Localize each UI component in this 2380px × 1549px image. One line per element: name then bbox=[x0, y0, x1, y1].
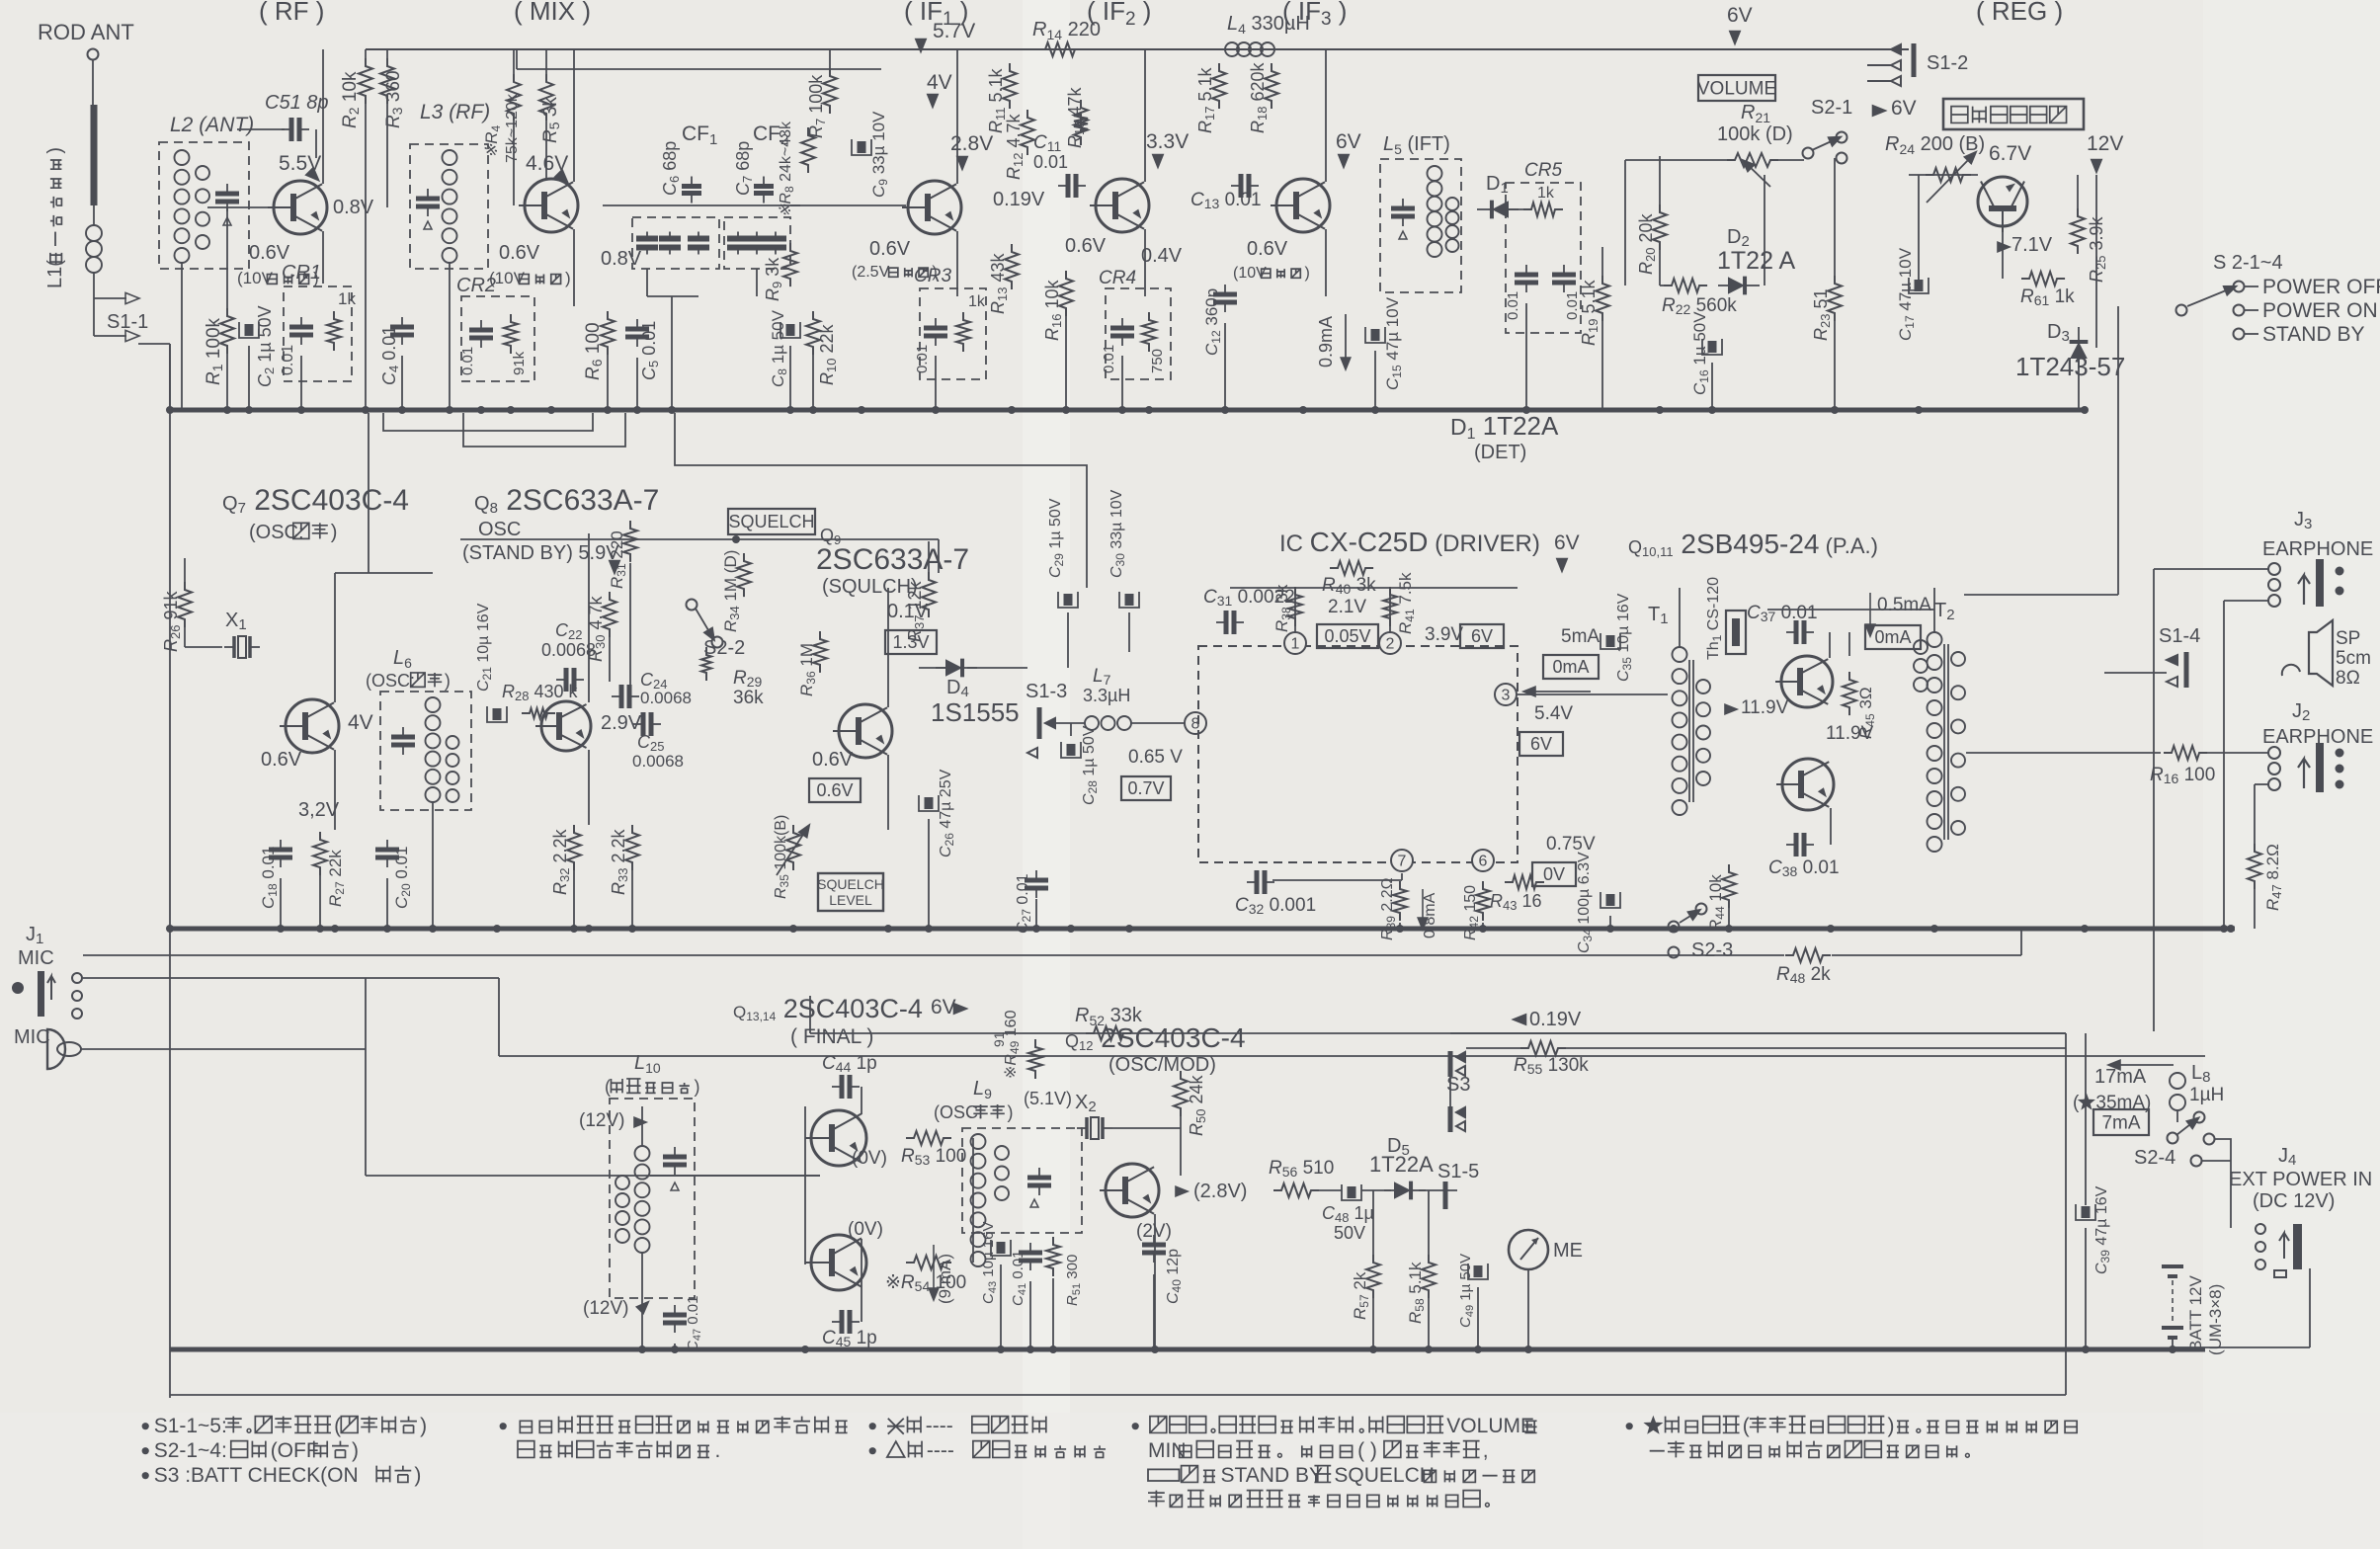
wire D2 out bbox=[1764, 175, 1765, 285]
marker 4.6V bbox=[555, 170, 572, 187]
wire C48 to D5 bbox=[1361, 1189, 1391, 1191]
legend star a bbox=[1626, 1415, 2078, 1437]
svg-text:6V: 6V bbox=[1471, 626, 1493, 646]
wire Q1 collector up bbox=[322, 49, 324, 184]
wire TX box bottom bbox=[170, 1394, 2066, 1396]
capacitor C11 bbox=[1058, 174, 1086, 198]
svg-text:36k: 36k bbox=[733, 688, 764, 708]
wire D3 down bbox=[2078, 358, 2080, 410]
svg-text:0mA: 0mA bbox=[1874, 627, 1911, 647]
filter CF2 element b bbox=[746, 232, 768, 255]
resistor R56 bbox=[1273, 1183, 1319, 1197]
svg-text:1µH: 1µH bbox=[2189, 1085, 2224, 1105]
wire R21 right bbox=[1778, 159, 1804, 161]
wire link 546 bbox=[460, 538, 939, 540]
pot arrow R21 bbox=[1747, 164, 1770, 187]
resistor R2 bbox=[359, 58, 372, 104]
junction bus bbox=[1299, 406, 1307, 414]
wire C41 down bbox=[1029, 1281, 1031, 1349]
wire R4 down bbox=[513, 122, 515, 205]
wire right riser c bbox=[2223, 601, 2225, 929]
wire Q2 emitter down bbox=[573, 229, 575, 306]
wire D2 link bbox=[1660, 285, 1668, 286]
junction mid bus bbox=[925, 925, 933, 933]
resistor R55 bbox=[1520, 1041, 1566, 1055]
svg-text:0.0068: 0.0068 bbox=[640, 689, 692, 707]
potentiometer R21 bbox=[1727, 153, 1778, 167]
IC pin 7 bbox=[1391, 850, 1413, 871]
svg-text:0.01: 0.01 bbox=[1101, 345, 1117, 373]
label 6V box b bbox=[1519, 732, 1563, 756]
junction mid bus bbox=[1606, 925, 1614, 933]
svg-text:R25 3.9k: R25 3.9k bbox=[2087, 216, 2108, 283]
wire C51 left bbox=[237, 128, 285, 130]
wire finals join bbox=[972, 1138, 974, 1263]
junction bus bbox=[223, 406, 231, 414]
capacitor C17 bbox=[1909, 278, 1929, 293]
svg-text:OSC: OSC bbox=[478, 519, 521, 540]
wire IF2 collector bbox=[1144, 49, 1146, 182]
capacitor C31 bbox=[1216, 611, 1244, 634]
svg-text:※R8 24k~43k: ※R8 24k~43k bbox=[778, 121, 796, 217]
resistor R51 bbox=[1046, 1237, 1060, 1276]
svg-text:4V: 4V bbox=[348, 711, 373, 734]
resistor R6 bbox=[601, 311, 615, 355]
wire CF link down bbox=[671, 296, 673, 410]
diode D3 bbox=[2070, 327, 2089, 368]
capacitor in L6 bbox=[391, 727, 415, 755]
diode D1 bbox=[1477, 201, 1518, 219]
marker 6V top bbox=[1730, 32, 1740, 44]
svg-text:(12V): (12V) bbox=[579, 1110, 624, 1131]
junction bottom bus bbox=[1369, 1345, 1377, 1353]
wire IF3 collector bbox=[1325, 49, 1327, 182]
wire R5 down bbox=[545, 122, 547, 179]
capacitor C28 bbox=[1061, 742, 1081, 758]
svg-text:SQUELCH: SQUELCH bbox=[817, 876, 884, 892]
svg-text:CR1: CR1 bbox=[282, 262, 321, 284]
switch S1-4 bbox=[2167, 652, 2186, 688]
capacitor C21 bbox=[487, 706, 507, 722]
wire mic drop bbox=[365, 978, 367, 1049]
wire riser a bbox=[498, 978, 500, 1056]
capacitor C16 bbox=[1702, 339, 1722, 355]
junction bottom bus bbox=[1474, 1345, 1482, 1353]
current arrow 0.8mA bbox=[1422, 889, 1424, 924]
wire L10 down bbox=[641, 1253, 643, 1349]
legend semiconductors a bbox=[500, 1417, 848, 1433]
wire R2 bottom bbox=[365, 104, 367, 410]
svg-text:S2-3: S2-3 bbox=[1691, 939, 1733, 961]
jack J3 bbox=[2268, 559, 2344, 607]
capacitor C43 bbox=[991, 1240, 1011, 1256]
svg-text:1k: 1k bbox=[1537, 185, 1555, 202]
junction bottom bus bbox=[1026, 1345, 1034, 1353]
junction mid bus bbox=[1067, 925, 1075, 933]
crystal X1 bbox=[224, 636, 260, 658]
wire C29 drop bbox=[1067, 612, 1069, 668]
IC pin 3 bbox=[1495, 684, 1517, 705]
capacitor in L2 bbox=[215, 184, 239, 211]
svg-text:3.9V: 3.9V bbox=[1425, 624, 1463, 645]
wire CF1 down bbox=[646, 269, 648, 296]
svg-text:( REG ): ( REG ) bbox=[1976, 0, 2063, 26]
top power bus bbox=[366, 48, 1909, 50]
marker 0.19V bbox=[1514, 1015, 1526, 1024]
resistor R9 bbox=[783, 243, 797, 286]
junction bottom bus bbox=[1151, 1345, 1159, 1353]
svg-text:SQUELCH: SQUELCH bbox=[1334, 1464, 1435, 1487]
wire R21 left drop bbox=[1624, 160, 1626, 285]
wire sw on bbox=[2245, 309, 2258, 311]
transistor Q2 (MIX) bbox=[519, 179, 578, 232]
filter CF1 element b bbox=[659, 232, 681, 255]
wire batt down bbox=[2172, 1338, 2174, 1347]
svg-text:STAND BY: STAND BY bbox=[2262, 323, 2364, 346]
svg-text:R27 22k: R27 22k bbox=[326, 850, 347, 907]
resistor R43 bbox=[1505, 875, 1544, 889]
junction bus bbox=[245, 406, 253, 414]
junction bus bbox=[547, 406, 555, 414]
label 0V box bbox=[1532, 862, 1576, 886]
resistor R50 bbox=[1174, 1071, 1188, 1116]
trimmer mark L3 bbox=[424, 221, 432, 229]
capacitor C9 bbox=[852, 139, 871, 155]
svg-text:): ) bbox=[331, 522, 338, 543]
wire R19 bot bbox=[1601, 321, 1603, 410]
marker 5.5V bbox=[306, 168, 323, 185]
resistor R54 bbox=[906, 1256, 951, 1269]
resistor R30 bbox=[603, 592, 616, 637]
wire antenna top bbox=[92, 60, 94, 105]
svg-text:): ) bbox=[1305, 265, 1310, 282]
svg-text:0.8V: 0.8V bbox=[333, 197, 374, 218]
svg-text:5.4V: 5.4V bbox=[1534, 703, 1573, 724]
capacitor C22 bbox=[556, 668, 584, 692]
wire R20 bot bbox=[1659, 250, 1661, 285]
trimmer mark L10 bbox=[671, 1182, 679, 1190]
wire mic out bbox=[81, 1048, 366, 1050]
resistor R11 bbox=[1003, 63, 1017, 109]
resistor R16 100 bbox=[2164, 746, 2207, 760]
capacitor C24 bbox=[612, 685, 639, 708]
svg-text:R26 91k: R26 91k bbox=[161, 591, 183, 652]
svg-text:S3 :BATT CHECK(ON: S3 :BATT CHECK(ON bbox=[154, 1464, 359, 1487]
svg-text:S2-1~4:: S2-1~4: bbox=[154, 1439, 227, 1462]
svg-text:1k: 1k bbox=[968, 293, 986, 310]
coil L2 dashed box bbox=[159, 142, 249, 269]
wire tx drop bbox=[365, 1049, 367, 1176]
wire R56 to C48 bbox=[1319, 1189, 1342, 1191]
svg-text:0.6V: 0.6V bbox=[261, 749, 302, 771]
wire TX box top bbox=[810, 1032, 2066, 1034]
capacitor C34 bbox=[1600, 892, 1620, 908]
svg-text:): ) bbox=[1888, 1415, 1895, 1437]
wire audio line long b bbox=[1832, 954, 2021, 956]
junction bus bbox=[2081, 406, 2089, 414]
svg-text:ROD ANT: ROD ANT bbox=[38, 20, 134, 44]
capacitor C6 bbox=[682, 177, 701, 204]
marker 12V bbox=[2092, 160, 2101, 173]
legend voltages a bbox=[1132, 1415, 1537, 1437]
svg-text:R9 3k: R9 3k bbox=[763, 257, 784, 301]
svg-text:R2 10k: R2 10k bbox=[340, 71, 362, 128]
resistor R42 bbox=[1476, 881, 1490, 921]
switch S3 b bbox=[1450, 1106, 1465, 1132]
transistor Q10 (PA) bbox=[1775, 656, 1833, 707]
capacitor C45 bbox=[832, 1310, 860, 1334]
legend triangle mark bbox=[869, 1439, 1106, 1462]
capacitor in L3 bbox=[416, 189, 440, 216]
svg-text:(SQULCH): (SQULCH) bbox=[822, 576, 918, 598]
switch S2 master bbox=[2234, 282, 2245, 292]
wire C15 down bbox=[1374, 351, 1376, 410]
junction mid bus bbox=[493, 925, 501, 933]
svg-text:1.3V: 1.3V bbox=[892, 632, 929, 652]
wire CF out bbox=[790, 204, 906, 206]
svg-text:C20 0.01: C20 0.01 bbox=[392, 847, 413, 909]
crystal X2 bbox=[1077, 1117, 1112, 1139]
marker 6V IC bbox=[1557, 559, 1567, 572]
junction mid bus bbox=[2081, 925, 2089, 933]
switch S2-2 bbox=[687, 600, 698, 611]
svg-text:C40 12p: C40 12p bbox=[1165, 1249, 1184, 1304]
capacitor CR3 0.01 bbox=[924, 318, 947, 346]
junction R47 bus bbox=[2220, 925, 2228, 933]
svg-text:CR5: CR5 bbox=[1524, 160, 1562, 181]
junction mid bus bbox=[1725, 925, 1733, 933]
svg-text:CR3: CR3 bbox=[914, 266, 951, 286]
wire L1 to S1-1 bbox=[93, 273, 95, 298]
svg-text:R47 8.2Ω: R47 8.2Ω bbox=[2263, 844, 2284, 911]
pot arrow R35 bbox=[777, 830, 806, 875]
svg-text:(: ( bbox=[1743, 1415, 1750, 1437]
svg-text:R6 100: R6 100 bbox=[583, 322, 605, 380]
svg-text:( FINAL ): ( FINAL ) bbox=[790, 1025, 873, 1048]
marker 6V tx bbox=[954, 1004, 967, 1014]
svg-text:C41 0.01: C41 0.01 bbox=[1010, 1251, 1028, 1306]
junction bus bbox=[166, 406, 174, 414]
svg-text:(OSC:: (OSC: bbox=[934, 1102, 983, 1122]
wire IF2 emitter bbox=[1144, 229, 1146, 296]
transformer T1 primary bbox=[1673, 647, 1687, 815]
wire L7 to pin8 bbox=[1131, 722, 1185, 724]
wire PA top bbox=[1767, 609, 1934, 611]
switch S2-3 bbox=[1669, 922, 1680, 933]
svg-text:( MIX ): ( MIX ) bbox=[514, 0, 591, 26]
svg-text:MIN: MIN bbox=[1148, 1439, 1187, 1462]
wire ME down bbox=[1527, 1269, 1529, 1349]
svg-text:7: 7 bbox=[1398, 854, 1407, 870]
wire R48 riser bbox=[2020, 930, 2022, 955]
resistor R3 bbox=[380, 58, 394, 104]
label 0mA box a bbox=[1543, 655, 1599, 679]
wire Q8 emitter bbox=[588, 750, 590, 825]
wire R26 link bbox=[184, 627, 186, 647]
svg-text:( ): ( ) bbox=[1357, 1439, 1377, 1462]
resistor R47 bbox=[2248, 844, 2261, 889]
wire C20 down bbox=[386, 878, 388, 929]
svg-text:C38 0.01: C38 0.01 bbox=[1768, 857, 1840, 879]
resistor R10 bbox=[806, 311, 820, 355]
filter CF1 element c bbox=[688, 232, 709, 255]
capacitor C35 bbox=[1600, 633, 1620, 649]
junction bus bbox=[362, 406, 369, 414]
svg-text:4V: 4V bbox=[927, 71, 952, 94]
junction bottom bus bbox=[1049, 1345, 1057, 1353]
svg-text:0.19V: 0.19V bbox=[1529, 1009, 1582, 1030]
svg-text:(: ( bbox=[334, 1415, 341, 1437]
svg-text:S1-3: S1-3 bbox=[1026, 681, 1067, 702]
junction bottom bus bbox=[801, 1345, 809, 1353]
svg-text:R33 2.2k: R33 2.2k bbox=[609, 829, 630, 895]
svg-text:0.9mA: 0.9mA bbox=[1316, 316, 1336, 367]
junction bus bbox=[1708, 406, 1716, 414]
coil L3 primary bbox=[443, 150, 457, 263]
svg-text:(STAND BY) 5.9V: (STAND BY) 5.9V bbox=[462, 542, 619, 564]
wire Q14 collector bbox=[861, 1239, 862, 1322]
wire C30 drop bbox=[1128, 612, 1130, 652]
wire L2 down bbox=[181, 263, 183, 410]
capacitor CR4 0.01 bbox=[1110, 318, 1134, 346]
wire R26 top bbox=[184, 558, 186, 582]
resistor R18 bbox=[1265, 63, 1278, 109]
label 0mA box b bbox=[1865, 625, 1921, 649]
svg-text:0.8V: 0.8V bbox=[601, 248, 642, 270]
wire L8 down bbox=[2176, 1110, 2178, 1122]
marker 2.8V tx bbox=[1176, 1186, 1188, 1196]
junction mid bus bbox=[1032, 925, 1040, 933]
svg-text:(12V): (12V) bbox=[583, 1298, 628, 1319]
junction bus bbox=[1221, 406, 1229, 414]
junction mid bus bbox=[884, 925, 892, 933]
transistor IF1 bbox=[902, 181, 961, 234]
junction bus bbox=[604, 406, 612, 414]
resistor CR5 1k bbox=[1523, 203, 1563, 216]
wire R57 down bbox=[1372, 1298, 1374, 1349]
resistor R26 bbox=[178, 582, 192, 627]
wire C16 bot bbox=[1711, 363, 1713, 410]
svg-text:(UM-3×8): (UM-3×8) bbox=[2206, 1284, 2225, 1355]
coil L2 secondary bbox=[196, 166, 209, 249]
marker 11.9V a bbox=[1725, 704, 1737, 714]
wire link 546 drop bbox=[938, 539, 940, 573]
transistor Q7 bbox=[280, 699, 339, 753]
wire CR5 down bbox=[1525, 303, 1527, 410]
capacitor C49 bbox=[1468, 1264, 1488, 1279]
svg-text:MIC: MIC bbox=[14, 1026, 50, 1048]
capacitor C5 bbox=[625, 319, 649, 347]
wire T1 top bbox=[1679, 588, 1681, 647]
label power voltage adjust bbox=[1951, 107, 2067, 123]
wire R58 down bbox=[1428, 1298, 1430, 1349]
capacitor in L10 bbox=[663, 1147, 687, 1175]
svg-text:C2 1µ 50V: C2 1µ 50V bbox=[255, 305, 277, 387]
wire IF1 emitter bbox=[956, 231, 958, 296]
wire R3 bottom bbox=[386, 104, 388, 207]
marker 12V b bbox=[636, 1298, 651, 1313]
wire R31 down bbox=[629, 563, 631, 696]
capacitor in L9 bbox=[1027, 1168, 1051, 1195]
svg-text:R53 100: R53 100 bbox=[901, 1146, 966, 1168]
svg-text:R55 130k: R55 130k bbox=[1514, 1055, 1589, 1077]
wire C4 down bbox=[401, 356, 403, 410]
ground bus main bbox=[168, 408, 2085, 413]
svg-text:S2-4: S2-4 bbox=[2134, 1147, 2175, 1169]
svg-text:C5 0.01: C5 0.01 bbox=[639, 321, 661, 380]
svg-text:3.3V: 3.3V bbox=[1146, 130, 1189, 153]
capacitor C38 bbox=[1786, 833, 1814, 856]
label VOLUME box bbox=[1697, 75, 1776, 101]
svg-text:POWER OFF: POWER OFF bbox=[2262, 276, 2380, 298]
svg-text:(0V): (0V) bbox=[848, 1219, 883, 1240]
label L6 osc jushin bbox=[366, 671, 451, 691]
svg-text:2.9V: 2.9V bbox=[601, 712, 642, 734]
resistor R25 bbox=[2071, 208, 2085, 254]
marker 2.8V bbox=[957, 157, 967, 170]
svg-text:): ) bbox=[414, 1464, 421, 1487]
resistor R8 bbox=[801, 127, 815, 173]
svg-text:3.3µH: 3.3µH bbox=[1083, 686, 1130, 705]
svg-text:R56 510: R56 510 bbox=[1269, 1158, 1334, 1180]
svg-text:D1 1T22A: D1 1T22A bbox=[1450, 411, 1559, 443]
wire Q13 in bbox=[804, 1106, 806, 1264]
capacitor C47 bbox=[663, 1305, 687, 1333]
wire R47 top bbox=[2254, 784, 2256, 844]
capacitor C25 bbox=[633, 712, 661, 736]
svg-text:8Ω: 8Ω bbox=[2336, 668, 2360, 689]
junction mid bus bbox=[585, 925, 593, 933]
svg-text:BATT 12V: BATT 12V bbox=[2186, 1274, 2205, 1351]
network CR3 dashed box bbox=[920, 288, 986, 379]
wire CR1 down bbox=[300, 356, 302, 410]
resistor R29 bbox=[701, 647, 711, 681]
svg-text:): ) bbox=[445, 671, 451, 691]
svg-text:(2.5V: (2.5V bbox=[852, 264, 890, 281]
marker 6V mid bbox=[1873, 106, 1886, 116]
wire MIX top drop bbox=[516, 49, 518, 69]
resistor R53 bbox=[906, 1131, 951, 1145]
svg-text:6V: 6V bbox=[1336, 130, 1361, 153]
wire R55 right bbox=[1566, 1047, 2066, 1049]
junction mid bus bbox=[383, 925, 391, 933]
switch S1-3 bbox=[1027, 707, 1055, 758]
filter CF2 element d bbox=[765, 232, 786, 255]
IC pin 8 bbox=[1185, 712, 1206, 734]
svg-text:L5 (IFT): L5 (IFT) bbox=[1383, 133, 1450, 157]
wire R47 down bbox=[2254, 889, 2256, 929]
coil L6 secondary bbox=[447, 736, 459, 802]
label 10V range Q1 bbox=[237, 269, 319, 287]
wire R23 bbox=[1834, 158, 1836, 276]
svg-text:0.01: 0.01 bbox=[1505, 291, 1521, 320]
svg-text:0.01: 0.01 bbox=[914, 345, 931, 373]
svg-text:----: ---- bbox=[927, 1439, 954, 1462]
resistor R38 bbox=[1288, 587, 1302, 626]
capacitor C44 bbox=[832, 1075, 860, 1099]
svg-text:R14 220: R14 220 bbox=[1032, 19, 1101, 42]
junction bottom bus bbox=[997, 1345, 1005, 1353]
junction mid bus bbox=[316, 925, 324, 933]
transformer T2 primary bbox=[1928, 632, 1942, 852]
diode D2 bbox=[1718, 277, 1760, 295]
wire D4 left bbox=[919, 667, 945, 669]
svg-text:11.9V: 11.9V bbox=[1741, 697, 1789, 718]
wire R27 down bbox=[319, 875, 321, 929]
junction mid bus bbox=[1396, 925, 1404, 933]
wire C2 down bbox=[248, 346, 250, 410]
junction bus bbox=[1915, 406, 1923, 414]
